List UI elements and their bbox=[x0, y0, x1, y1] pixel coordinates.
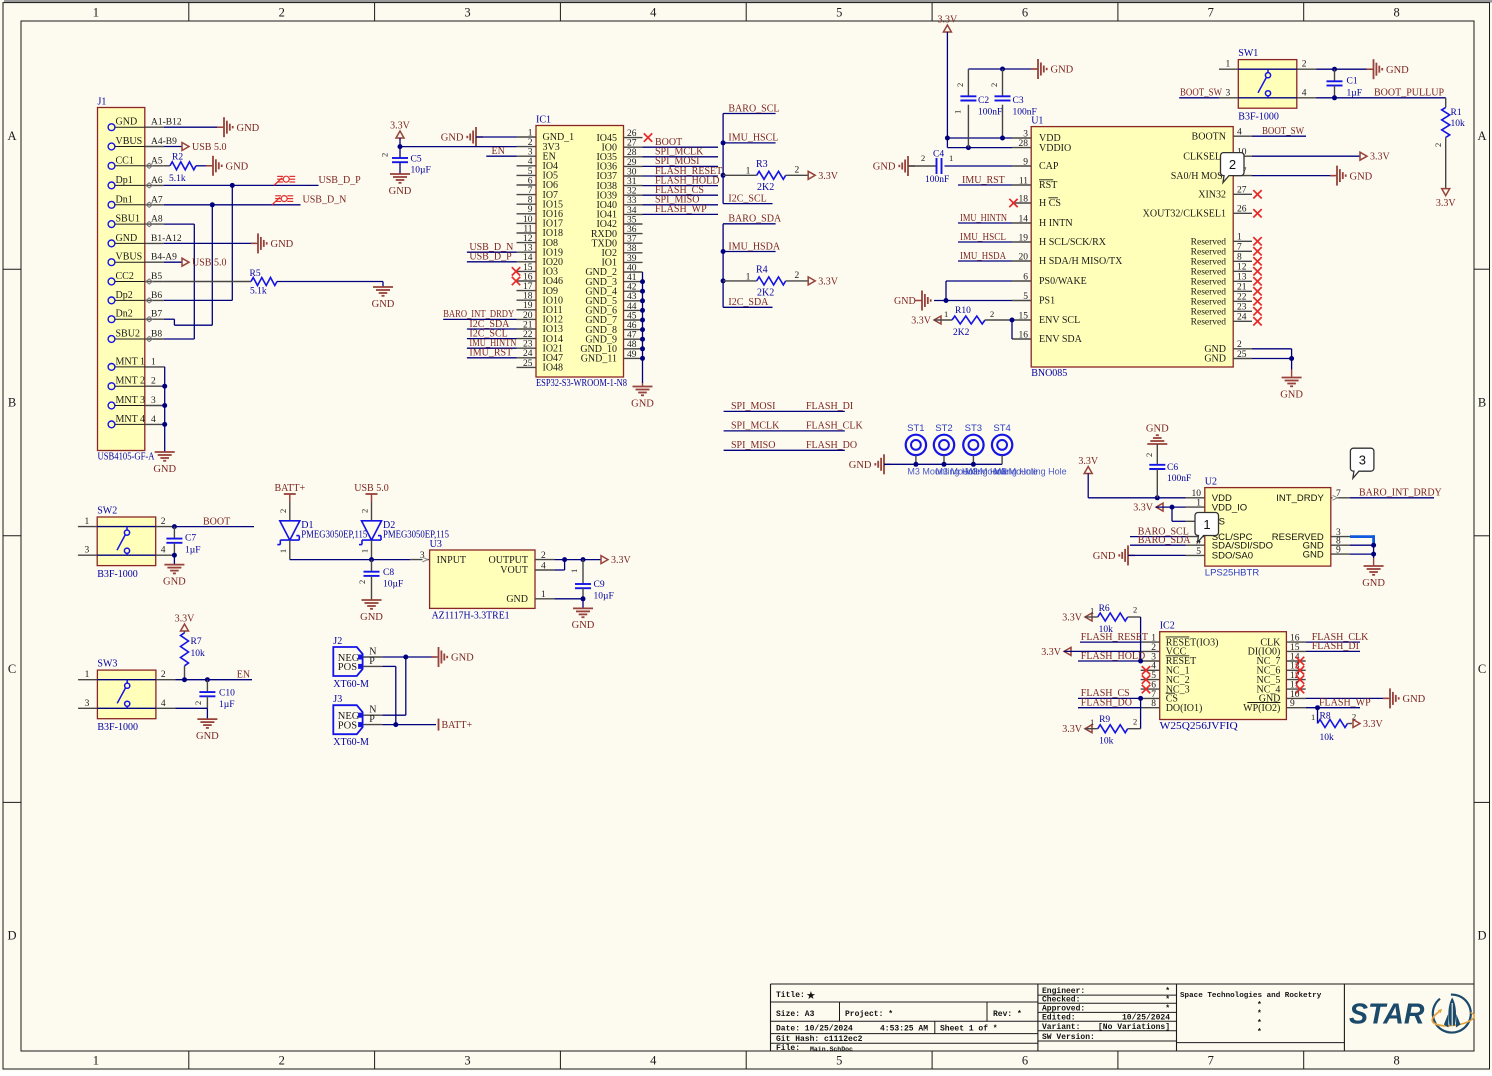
svg-text:A6: A6 bbox=[151, 176, 163, 186]
svg-text:Reserved: Reserved bbox=[1191, 278, 1227, 288]
svg-text:2: 2 bbox=[795, 165, 800, 175]
svg-text:BARO_SCL: BARO_SCL bbox=[728, 103, 779, 114]
svg-text:PS1: PS1 bbox=[1039, 296, 1055, 307]
svg-text:J3: J3 bbox=[333, 694, 342, 705]
svg-text:*: * bbox=[1257, 1028, 1262, 1037]
svg-text:BARO_INT_DRDY: BARO_INT_DRDY bbox=[1359, 488, 1442, 499]
svg-text:R7: R7 bbox=[191, 637, 202, 647]
svg-text:100nF: 100nF bbox=[1167, 474, 1191, 484]
svg-text:H SCL/SCK/RX: H SCL/SCK/RX bbox=[1039, 237, 1107, 248]
svg-text:GND: GND bbox=[1051, 65, 1074, 76]
svg-text:I2C_SDA: I2C_SDA bbox=[728, 297, 769, 308]
svg-text:C1: C1 bbox=[1347, 77, 1358, 87]
svg-text:17: 17 bbox=[523, 282, 533, 292]
svg-text:I2C_SCL: I2C_SCL bbox=[728, 193, 766, 204]
svg-text:2: 2 bbox=[278, 509, 288, 513]
svg-text:Approved:: Approved: bbox=[1042, 1005, 1085, 1014]
svg-text:GND: GND bbox=[196, 731, 219, 742]
svg-text:LPS25HBTR: LPS25HBTR bbox=[1205, 568, 1260, 579]
svg-text:ESP32-S3-WROOM-1-N8: ESP32-S3-WROOM-1-N8 bbox=[536, 378, 627, 389]
svg-text:H INTN: H INTN bbox=[1039, 218, 1073, 229]
svg-text:16: 16 bbox=[1019, 330, 1029, 340]
svg-text:8: 8 bbox=[1393, 6, 1399, 20]
svg-text:1: 1 bbox=[93, 6, 99, 20]
svg-text:2: 2 bbox=[357, 580, 367, 584]
svg-text:D: D bbox=[1477, 929, 1486, 943]
svg-text:21: 21 bbox=[523, 320, 533, 330]
svg-text:GND: GND bbox=[271, 239, 294, 250]
svg-text:C2: C2 bbox=[978, 96, 989, 106]
svg-text:Dp2: Dp2 bbox=[116, 290, 133, 301]
svg-text:STAR: STAR bbox=[1349, 999, 1425, 1031]
svg-text:9: 9 bbox=[1290, 699, 1295, 709]
svg-text:4: 4 bbox=[1237, 128, 1242, 138]
svg-text:SPI_MOSI: SPI_MOSI bbox=[731, 401, 775, 412]
svg-text:27: 27 bbox=[1237, 186, 1247, 196]
svg-text:20: 20 bbox=[1019, 252, 1029, 262]
svg-text:6: 6 bbox=[1022, 6, 1028, 20]
svg-text:1: 1 bbox=[1196, 499, 1201, 509]
svg-text:R10: R10 bbox=[955, 306, 971, 316]
svg-text:GND: GND bbox=[1350, 171, 1373, 182]
svg-text:4: 4 bbox=[1302, 88, 1307, 98]
svg-text:IC1: IC1 bbox=[536, 115, 551, 126]
svg-text:GND: GND bbox=[116, 233, 138, 244]
svg-text:INT_DRDY: INT_DRDY bbox=[1276, 493, 1324, 504]
svg-text:B4-A9: B4-A9 bbox=[151, 253, 177, 263]
svg-text:File:: File: bbox=[776, 1044, 800, 1053]
svg-text:P: P bbox=[369, 714, 375, 725]
svg-text:GND: GND bbox=[1146, 424, 1169, 435]
svg-text:10: 10 bbox=[523, 215, 533, 225]
svg-text:CLKSEL0: CLKSEL0 bbox=[1183, 151, 1226, 162]
svg-text:IO48: IO48 bbox=[543, 363, 564, 374]
svg-text:11: 11 bbox=[1019, 176, 1028, 186]
svg-text:ST3: ST3 bbox=[965, 423, 982, 434]
svg-text:1µF: 1µF bbox=[185, 546, 201, 556]
svg-text:XIN32: XIN32 bbox=[1198, 190, 1226, 201]
svg-text:2K2: 2K2 bbox=[757, 182, 774, 193]
svg-text:3.3V: 3.3V bbox=[1370, 152, 1391, 163]
svg-text:10k: 10k bbox=[191, 649, 206, 659]
svg-text:10µF: 10µF bbox=[383, 580, 403, 590]
svg-text:FLASH_WP: FLASH_WP bbox=[655, 204, 707, 215]
svg-text:B1-A12: B1-A12 bbox=[151, 234, 182, 244]
svg-text:Sheet 1 of *: Sheet 1 of * bbox=[940, 1025, 998, 1034]
svg-text:A: A bbox=[1477, 129, 1486, 143]
svg-text:1: 1 bbox=[93, 1054, 99, 1068]
svg-text:6: 6 bbox=[1023, 272, 1028, 282]
svg-text:1: 1 bbox=[746, 272, 751, 282]
svg-text:47: 47 bbox=[627, 331, 637, 341]
svg-text:FLASH_HOLD: FLASH_HOLD bbox=[1081, 651, 1145, 662]
svg-text:1: 1 bbox=[746, 167, 751, 177]
svg-text:13: 13 bbox=[523, 244, 533, 254]
svg-text:2: 2 bbox=[1433, 143, 1443, 147]
svg-text:GND: GND bbox=[451, 653, 474, 664]
svg-text:GND: GND bbox=[873, 162, 896, 173]
svg-text:40: 40 bbox=[627, 263, 637, 273]
svg-text:46: 46 bbox=[627, 321, 637, 331]
svg-text:C: C bbox=[8, 662, 16, 676]
svg-text:C7: C7 bbox=[185, 534, 196, 544]
svg-text:21: 21 bbox=[1237, 283, 1247, 293]
svg-text:C: C bbox=[1478, 662, 1486, 676]
svg-text:SBU1: SBU1 bbox=[116, 214, 140, 225]
svg-text:2: 2 bbox=[1133, 717, 1137, 727]
svg-text:GND: GND bbox=[506, 594, 528, 605]
svg-text:2: 2 bbox=[541, 551, 546, 561]
svg-text:4: 4 bbox=[541, 561, 546, 571]
svg-text:3.3V: 3.3V bbox=[1133, 503, 1154, 514]
svg-text:BATT+: BATT+ bbox=[442, 720, 473, 731]
svg-text:GND: GND bbox=[226, 162, 249, 173]
svg-text:15: 15 bbox=[1290, 643, 1300, 653]
svg-text:VDDIO: VDDIO bbox=[1039, 143, 1071, 154]
svg-text:13: 13 bbox=[1237, 273, 1247, 283]
svg-text:1: 1 bbox=[1090, 717, 1094, 727]
svg-text:2: 2 bbox=[795, 271, 800, 281]
svg-text:USB_D_P: USB_D_P bbox=[469, 252, 512, 263]
svg-text:11: 11 bbox=[523, 224, 532, 234]
svg-text:CAP: CAP bbox=[1039, 161, 1059, 172]
svg-text:6: 6 bbox=[528, 176, 533, 186]
svg-text:16: 16 bbox=[523, 272, 533, 282]
svg-text:FLASH_DO: FLASH_DO bbox=[1081, 698, 1132, 709]
svg-text:GND: GND bbox=[1386, 65, 1409, 76]
svg-text:1: 1 bbox=[1090, 606, 1094, 616]
svg-text:A5: A5 bbox=[151, 156, 163, 166]
svg-text:B8: B8 bbox=[151, 330, 162, 340]
svg-text:4: 4 bbox=[650, 1054, 657, 1068]
svg-text:1: 1 bbox=[953, 110, 963, 114]
svg-text:BNO085: BNO085 bbox=[1031, 368, 1067, 379]
svg-text:B: B bbox=[1478, 396, 1486, 410]
svg-text:2: 2 bbox=[528, 138, 533, 148]
svg-text:D: D bbox=[7, 929, 16, 943]
svg-text:GND: GND bbox=[1204, 354, 1226, 365]
svg-text:Date: 10/25/2024: Date: 10/25/2024 bbox=[776, 1025, 853, 1034]
svg-text:SW2: SW2 bbox=[97, 506, 117, 517]
svg-text:GND: GND bbox=[116, 117, 138, 128]
svg-text:*: * bbox=[1257, 1010, 1262, 1019]
svg-text:7: 7 bbox=[1208, 6, 1214, 20]
svg-text:37: 37 bbox=[627, 235, 637, 245]
svg-text:SPI_MCLK: SPI_MCLK bbox=[731, 421, 780, 432]
svg-text:A7: A7 bbox=[151, 195, 163, 205]
svg-text:J2: J2 bbox=[333, 636, 342, 647]
svg-text:22: 22 bbox=[523, 330, 533, 340]
svg-text:5.1k: 5.1k bbox=[250, 287, 267, 297]
svg-text:10/25/2024: 10/25/2024 bbox=[1122, 1014, 1170, 1023]
svg-text:24: 24 bbox=[1237, 313, 1247, 323]
svg-text:25: 25 bbox=[523, 359, 533, 369]
svg-text:GND: GND bbox=[372, 299, 395, 310]
svg-text:3: 3 bbox=[1359, 453, 1366, 468]
svg-text:49: 49 bbox=[627, 350, 637, 360]
svg-text:100nF: 100nF bbox=[925, 175, 949, 185]
svg-text:GND: GND bbox=[1303, 549, 1324, 560]
svg-text:SW1: SW1 bbox=[1238, 48, 1258, 59]
svg-text:IMU_HSDA: IMU_HSDA bbox=[728, 241, 780, 252]
svg-text:2: 2 bbox=[955, 83, 965, 87]
svg-text:IMU_RST: IMU_RST bbox=[962, 175, 1005, 186]
svg-text:BARO_SDA: BARO_SDA bbox=[728, 214, 782, 225]
svg-text:ENV SCL: ENV SCL bbox=[1039, 315, 1080, 326]
svg-text:2: 2 bbox=[193, 701, 203, 705]
svg-text:SA0/H MOSI: SA0/H MOSI bbox=[1171, 171, 1226, 182]
svg-text:B: B bbox=[8, 396, 16, 410]
svg-text:2: 2 bbox=[1302, 60, 1307, 70]
svg-text:POS: POS bbox=[338, 662, 357, 673]
svg-text:R4: R4 bbox=[756, 264, 768, 275]
svg-text:5: 5 bbox=[528, 167, 533, 177]
svg-text:29: 29 bbox=[627, 158, 637, 168]
svg-text:XT60-M: XT60-M bbox=[333, 737, 369, 748]
svg-text:2: 2 bbox=[921, 153, 925, 163]
svg-text:15: 15 bbox=[523, 263, 533, 273]
svg-text:Title:: Title: bbox=[776, 991, 805, 1000]
svg-text:2: 2 bbox=[360, 509, 370, 513]
svg-text:Dn1: Dn1 bbox=[116, 194, 133, 205]
svg-text:3: 3 bbox=[84, 546, 89, 556]
svg-text:1: 1 bbox=[541, 590, 546, 600]
svg-text:2: 2 bbox=[161, 517, 166, 527]
svg-text:28: 28 bbox=[627, 148, 637, 158]
svg-text:BOOT_SW: BOOT_SW bbox=[1180, 88, 1222, 99]
svg-text:XOUT32/CLKSEL1: XOUT32/CLKSEL1 bbox=[1143, 209, 1226, 220]
svg-text:J1: J1 bbox=[98, 97, 107, 108]
svg-text:2: 2 bbox=[989, 83, 999, 87]
svg-text:[No Variations]: [No Variations] bbox=[1098, 1023, 1170, 1032]
svg-text:3.3V: 3.3V bbox=[818, 276, 839, 287]
svg-text:B7: B7 bbox=[151, 310, 162, 320]
svg-text:USB4105-GF-A: USB4105-GF-A bbox=[98, 452, 156, 463]
svg-text:44: 44 bbox=[627, 302, 637, 312]
svg-text:B3F-1000: B3F-1000 bbox=[97, 569, 138, 580]
svg-text:7: 7 bbox=[1237, 243, 1242, 253]
svg-text:100nF: 100nF bbox=[978, 108, 1002, 118]
svg-text:H SDA/H MISO/TX: H SDA/H MISO/TX bbox=[1039, 256, 1123, 267]
svg-text:FLASH_WP: FLASH_WP bbox=[1319, 698, 1371, 709]
svg-text:M3 Mounting Hole: M3 Mounting Hole bbox=[994, 467, 1067, 477]
svg-text:SPI_MISO: SPI_MISO bbox=[731, 440, 775, 451]
svg-text:10k: 10k bbox=[1099, 737, 1114, 747]
svg-text:4:53:25 AM: 4:53:25 AM bbox=[880, 1025, 928, 1034]
svg-text:RST: RST bbox=[1039, 180, 1057, 191]
svg-text:1: 1 bbox=[278, 549, 288, 553]
svg-text:23: 23 bbox=[523, 340, 533, 350]
svg-text:19: 19 bbox=[523, 301, 533, 311]
svg-text:1µF: 1µF bbox=[219, 700, 235, 710]
svg-text:27: 27 bbox=[627, 139, 637, 149]
svg-text:1: 1 bbox=[151, 357, 156, 367]
svg-text:1: 1 bbox=[569, 569, 579, 573]
svg-text:SW3: SW3 bbox=[97, 659, 117, 670]
svg-text:MNT 3: MNT 3 bbox=[116, 395, 146, 406]
svg-text:1µF: 1µF bbox=[1347, 89, 1363, 99]
svg-text:4: 4 bbox=[528, 157, 533, 167]
svg-text:GND: GND bbox=[572, 620, 595, 631]
svg-text:14: 14 bbox=[523, 253, 533, 263]
svg-text:3.3V: 3.3V bbox=[938, 15, 959, 26]
svg-text:EN: EN bbox=[237, 670, 250, 681]
svg-text:U2: U2 bbox=[1205, 477, 1217, 488]
svg-text:18: 18 bbox=[523, 292, 533, 302]
svg-text:XT60-M: XT60-M bbox=[333, 679, 369, 690]
svg-text:20: 20 bbox=[523, 311, 533, 321]
svg-text:42: 42 bbox=[627, 283, 637, 293]
svg-text:CC2: CC2 bbox=[116, 271, 134, 282]
svg-text:GND: GND bbox=[153, 464, 176, 475]
svg-text:Git Hash: c1112ec2: Git Hash: c1112ec2 bbox=[776, 1035, 863, 1044]
svg-text:2K2: 2K2 bbox=[953, 328, 970, 338]
svg-text:18: 18 bbox=[1019, 194, 1029, 204]
svg-text:Variant:: Variant: bbox=[1042, 1023, 1080, 1032]
svg-text:3.3V: 3.3V bbox=[1041, 647, 1062, 658]
svg-text:GND_11: GND_11 bbox=[581, 354, 617, 365]
svg-text:10µF: 10µF bbox=[594, 592, 614, 602]
svg-text:2: 2 bbox=[1151, 643, 1156, 653]
svg-text:Reserved: Reserved bbox=[1191, 258, 1227, 268]
svg-text:9: 9 bbox=[1336, 546, 1341, 556]
svg-text:9: 9 bbox=[1023, 157, 1028, 167]
svg-text:GND: GND bbox=[389, 186, 412, 197]
svg-text:SBU2: SBU2 bbox=[116, 329, 140, 340]
svg-text:B5: B5 bbox=[151, 272, 162, 282]
svg-text:EN: EN bbox=[492, 146, 505, 157]
svg-text:BOOTN: BOOTN bbox=[1192, 131, 1226, 142]
svg-text:Reserved: Reserved bbox=[1191, 248, 1227, 258]
svg-text:2: 2 bbox=[1144, 453, 1154, 457]
svg-text:1: 1 bbox=[360, 549, 370, 553]
svg-text:32: 32 bbox=[627, 187, 637, 197]
svg-text:3.3V: 3.3V bbox=[390, 121, 411, 132]
svg-text:GND: GND bbox=[631, 398, 654, 409]
svg-text:4: 4 bbox=[161, 699, 166, 709]
svg-text:3: 3 bbox=[85, 699, 90, 709]
svg-text:VOUT: VOUT bbox=[500, 565, 528, 576]
svg-text:MNT 4: MNT 4 bbox=[116, 414, 146, 425]
svg-text:28: 28 bbox=[1019, 139, 1029, 149]
svg-text:3.3V: 3.3V bbox=[611, 555, 632, 566]
svg-text:5.1k: 5.1k bbox=[169, 174, 186, 184]
svg-text:INPUT: INPUT bbox=[437, 555, 466, 566]
svg-text:C9: C9 bbox=[594, 580, 605, 590]
svg-text:IMU_HSCL: IMU_HSCL bbox=[960, 232, 1006, 243]
svg-text:GND: GND bbox=[237, 123, 260, 134]
svg-text:48: 48 bbox=[627, 340, 637, 350]
svg-text:VBUS: VBUS bbox=[116, 136, 143, 147]
svg-text:3.3V: 3.3V bbox=[1062, 613, 1083, 624]
svg-text:1: 1 bbox=[84, 517, 89, 527]
svg-text:4: 4 bbox=[650, 6, 657, 20]
svg-text:5: 5 bbox=[836, 6, 842, 20]
svg-text:1: 1 bbox=[85, 670, 90, 680]
svg-text:ENV SDA: ENV SDA bbox=[1039, 334, 1083, 345]
svg-text:USB 5.0: USB 5.0 bbox=[192, 142, 226, 153]
svg-text:24: 24 bbox=[523, 349, 533, 359]
svg-text:1: 1 bbox=[1311, 712, 1315, 722]
svg-text:5: 5 bbox=[836, 1054, 842, 1068]
svg-text:*: * bbox=[1165, 1005, 1170, 1014]
svg-text:USB 5.0: USB 5.0 bbox=[354, 483, 388, 494]
svg-text:2: 2 bbox=[990, 309, 994, 319]
svg-text:OUTPUT: OUTPUT bbox=[489, 555, 528, 566]
svg-text:VDD_IO: VDD_IO bbox=[1212, 502, 1247, 513]
svg-text:C8: C8 bbox=[383, 568, 394, 578]
svg-text:7: 7 bbox=[1208, 1054, 1214, 1068]
svg-text:WP(IO2): WP(IO2) bbox=[1243, 703, 1280, 714]
svg-text:Edited:: Edited: bbox=[1042, 1014, 1076, 1023]
svg-text:25: 25 bbox=[1237, 350, 1247, 360]
svg-text:R3: R3 bbox=[756, 159, 768, 170]
svg-text:34: 34 bbox=[627, 206, 637, 216]
svg-text:GND: GND bbox=[1280, 389, 1303, 400]
svg-text:H CS: H CS bbox=[1039, 198, 1061, 209]
svg-text:3: 3 bbox=[1023, 129, 1028, 139]
svg-text:R9: R9 bbox=[1099, 715, 1110, 725]
svg-text:3: 3 bbox=[528, 148, 533, 158]
svg-text:IC2: IC2 bbox=[1160, 621, 1175, 632]
svg-text:2: 2 bbox=[161, 670, 166, 680]
svg-text:P: P bbox=[369, 656, 375, 667]
svg-text:2: 2 bbox=[279, 6, 285, 20]
svg-text:B3F-1000: B3F-1000 bbox=[97, 722, 138, 733]
svg-text:Size: A3: Size: A3 bbox=[776, 1010, 815, 1019]
svg-text:A4-B9: A4-B9 bbox=[151, 137, 177, 147]
svg-text:B3F-1000: B3F-1000 bbox=[1238, 112, 1279, 123]
svg-text:38: 38 bbox=[627, 244, 637, 254]
svg-text:3: 3 bbox=[464, 6, 470, 20]
svg-text:BOOT_SW: BOOT_SW bbox=[1262, 126, 1304, 137]
svg-text:BARO_SDA: BARO_SDA bbox=[1138, 535, 1192, 546]
svg-text:U3: U3 bbox=[430, 539, 442, 550]
svg-text:Reserved: Reserved bbox=[1191, 238, 1227, 248]
svg-text:C4: C4 bbox=[933, 150, 944, 160]
svg-text:1: 1 bbox=[1226, 60, 1231, 70]
svg-text:1: 1 bbox=[944, 309, 948, 319]
svg-text:Reserved: Reserved bbox=[1191, 298, 1227, 308]
svg-text:1: 1 bbox=[1237, 233, 1242, 243]
svg-text:ST2: ST2 bbox=[935, 423, 952, 434]
svg-text:Reserved: Reserved bbox=[1191, 318, 1227, 328]
svg-text:Reserved: Reserved bbox=[1191, 308, 1227, 318]
svg-text:15: 15 bbox=[1019, 311, 1029, 321]
svg-text:Rev: *: Rev: * bbox=[993, 1010, 1022, 1019]
svg-text:GND: GND bbox=[1093, 551, 1116, 562]
svg-text:3: 3 bbox=[151, 396, 156, 406]
svg-text:43: 43 bbox=[627, 292, 637, 302]
svg-text:GND: GND bbox=[163, 576, 186, 587]
svg-text:Main.SchDoc: Main.SchDoc bbox=[810, 1046, 853, 1053]
svg-text:C5: C5 bbox=[411, 155, 422, 165]
svg-text:4: 4 bbox=[151, 415, 156, 425]
svg-text:10µF: 10µF bbox=[411, 166, 431, 176]
svg-text:IMU_HINTN: IMU_HINTN bbox=[960, 213, 1007, 224]
svg-text:SW Version:: SW Version: bbox=[1042, 1033, 1095, 1042]
svg-text:GND: GND bbox=[441, 133, 464, 144]
svg-text:B6: B6 bbox=[151, 291, 162, 301]
svg-text:R2: R2 bbox=[172, 153, 183, 163]
svg-text:3.3V: 3.3V bbox=[1062, 724, 1083, 735]
svg-text:14: 14 bbox=[1019, 214, 1029, 224]
svg-text:USB_D_N: USB_D_N bbox=[303, 195, 347, 206]
svg-text:W25Q256JVFIQ: W25Q256JVFIQ bbox=[1160, 721, 1239, 732]
svg-text:3: 3 bbox=[464, 1054, 470, 1068]
svg-text:100nF: 100nF bbox=[1013, 108, 1037, 118]
svg-text:2: 2 bbox=[1237, 340, 1242, 350]
